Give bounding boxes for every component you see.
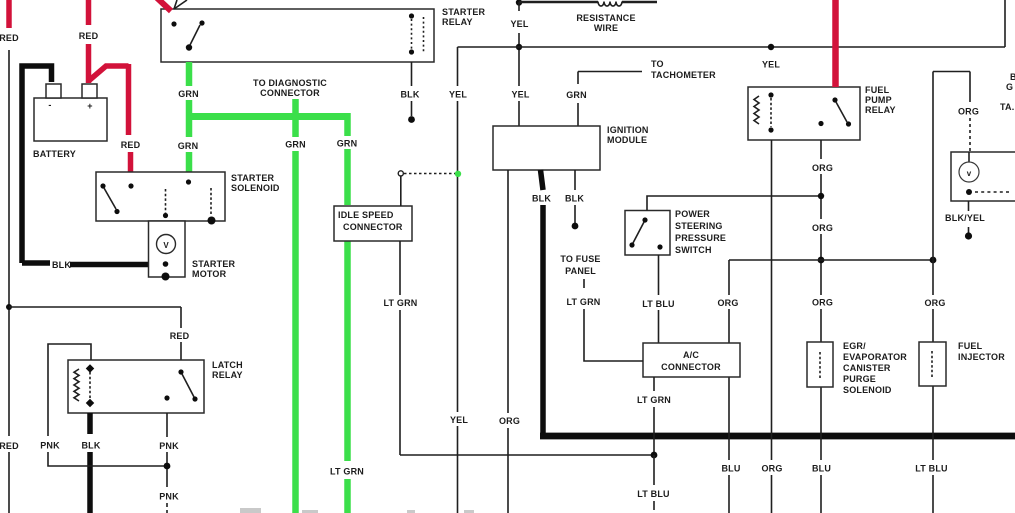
svg-text:BLK: BLK [52,260,71,270]
wire ORG x=933 from bracket to bottom [932,72,934,513]
svg-text:TACHOMETER: TACHOMETER [651,70,716,80]
wire from switch top to ORG junction y=196 [647,196,821,211]
svg-text:LT BLU: LT BLU [915,464,948,474]
svg-text:STARTER: STARTER [442,7,486,17]
svg-text:ORG: ORG [499,416,520,426]
wire far-left RED feed vertical x=9 [6,0,12,513]
svg-text:RED: RED [0,33,19,43]
wire ORG x=729 [728,260,730,513]
wire ORG x=508 from ignition module to bottom [507,170,509,513]
svg-text:SOLENOID: SOLENOID [231,183,280,193]
svg-text:B: B [1010,72,1015,82]
battery B1 [34,84,107,141]
svg-text:ORG: ORG [812,223,833,233]
fuel injector box [919,342,946,386]
wire thin V marks above relay [174,0,187,9]
wire dashed link to YEL line [404,173,455,175]
svg-text:BATTERY: BATTERY [33,149,76,159]
svg-text:RELAY: RELAY [865,105,896,115]
svg-text:POWER: POWER [675,209,710,219]
svg-text:ORG: ORG [812,298,833,308]
svg-text:+: + [87,101,92,111]
node junction (933,260) [930,257,937,264]
svg-text:PRESSURE: PRESSURE [675,233,726,243]
ignition module U1 [493,126,600,170]
svg-text:EGR/: EGR/ [843,341,866,351]
wire ORG distribution y=260 [729,259,933,261]
wire YEL x=457.5 full height [457,47,459,513]
svg-text:CONNECTOR: CONNECTOR [661,362,721,372]
svg-text:BLK: BLK [81,441,100,451]
svg-text:IDLE SPEED: IDLE SPEED [338,210,394,220]
svg-text:GRN: GRN [178,89,199,99]
svg-text:ORG: ORG [924,298,945,308]
wire LT GRN from A/C connector x=654 [653,377,655,452]
svg-text:STEERING: STEERING [675,221,723,231]
svg-text:LT GRN: LT GRN [566,297,600,307]
svg-text:ORG: ORG [761,464,782,474]
starter solenoid contacts [100,179,215,224]
wire BLK thick from ignition module [541,170,544,190]
wire BLK thick horizontal y=436 [540,433,1015,440]
node junction (519,47) [516,44,522,50]
starter relay contacts [171,13,423,54]
svg-text:PNK: PNK [159,492,179,502]
svg-text:RELAY: RELAY [442,17,473,27]
svg-text:INJECTOR: INJECTOR [958,352,1005,362]
EGR solenoid box [807,342,833,387]
svg-text:FUEL: FUEL [958,341,983,351]
svg-text:LT GRN: LT GRN [330,467,364,477]
wire BLK/YEL from sender [968,201,970,233]
wire GRN main bus y=116.5 [186,113,350,120]
svg-text:-: - [48,100,51,110]
terminal end [408,116,415,123]
svg-text:SOLENOID: SOLENOID [843,385,892,395]
svg-text:RESISTANCE: RESISTANCE [576,13,635,23]
A/C connector box [643,343,740,377]
wire battery ground (thick BLK) [22,66,149,265]
starter relay K1 box [161,9,434,62]
faint bottom edge remnants [240,508,474,513]
wire horizontal y=455 to junction [400,454,654,456]
svg-text:LT BLU: LT BLU [637,489,670,499]
svg-text:TO FUSE: TO FUSE [560,254,600,264]
node open circle (401,173.5) [398,171,403,176]
svg-text:G: G [1006,82,1013,92]
svg-text:TO: TO [651,59,664,69]
wire RED battery feed x=88.5 [89,0,131,172]
wire LT GRN from idle speed connector x=400 [399,241,401,455]
svg-text:V: V [163,241,169,250]
svg-text:ORG: ORG [717,298,738,308]
svg-text:v: v [967,169,972,178]
wire BLK thick from latch relay x=90 [87,413,93,513]
svg-text:CANISTER: CANISTER [843,363,891,373]
power steering pressure switch box [625,211,670,256]
svg-text:PUMP: PUMP [865,95,892,105]
wire BLK from relay x=412 [411,62,413,116]
svg-text:RED: RED [79,31,99,41]
wire bracket top y=71.5 [933,72,970,103]
wire LT BLU below junction [653,455,655,510]
wire GRN x=347.5 [344,113,351,513]
svg-text:BLU: BLU [721,464,740,474]
svg-text:GRN: GRN [337,139,358,149]
svg-text:BLK: BLK [532,194,551,204]
node junction (771,47) [768,44,774,50]
svg-text:CONNECTOR: CONNECTOR [260,88,320,98]
svg-text:RED: RED [121,140,141,150]
svg-text:YEL: YEL [450,415,468,425]
wire GRN diagnostic x=295.5 [292,99,299,513]
node junction (654,455) [651,452,658,459]
latch relay internals [74,364,198,407]
node junction (167,466) [164,463,171,470]
wire PNK horizontal y=466 [48,452,167,466]
svg-text:TA.: TA. [1000,102,1014,112]
svg-text:LT GRN: LT GRN [383,298,417,308]
svg-text:WIRE: WIRE [594,23,618,33]
svg-text:RED: RED [170,331,190,341]
wire LT GRN from fuse panel x=584 [584,279,643,361]
svg-text:ORG: ORG [812,163,833,173]
node junction (821,260) [818,257,825,264]
svg-text:BLK: BLK [400,90,419,100]
wire ORG coil return x=771.5 full height [771,140,773,513]
svg-text:SWITCH: SWITCH [675,245,712,255]
svg-text:PANEL: PANEL [565,266,596,276]
svg-text:PURGE: PURGE [843,374,876,384]
svg-text:BLU: BLU [812,464,831,474]
latch relay K3 box [68,360,204,413]
svg-text:BLK/YEL: BLK/YEL [945,213,985,223]
svg-text:YEL: YEL [449,90,467,100]
svg-text:YEL: YEL [510,19,528,29]
svg-text:PNK: PNK [159,441,179,451]
wire ORG switched x=821 [820,140,822,513]
svg-text:GRN: GRN [566,90,587,100]
svg-text:LATCH: LATCH [212,360,243,370]
svg-text:IGNITION: IGNITION [607,125,649,135]
wire from circle into idle speed connector [400,176,402,206]
svg-text:RELAY: RELAY [212,370,243,380]
wire PNK dashed below [166,469,168,513]
wire RED feed to fuel pump relay x=835.5 [832,0,839,87]
svg-text:RED: RED [0,441,19,451]
svg-text:CONNECTOR: CONNECTOR [343,222,403,232]
wire resistance wire top line y=2 [516,0,657,6]
wire PNK from latch relay x=167 [166,413,168,463]
svg-text:MOTOR: MOTOR [192,269,227,279]
wire LT BLU from switch bottom x=658.5 [658,255,660,343]
wire PNK bracket to latch relay [48,344,91,436]
svg-text:PNK: PNK [40,441,60,451]
svg-text:YEL: YEL [511,90,529,100]
starter solenoid box [96,172,225,221]
svg-text:MODULE: MODULE [607,135,647,145]
wire BLK stub x=575 with terminal [574,170,576,223]
svg-text:A/C: A/C [683,350,699,360]
node junction at (9,307) [6,304,12,310]
fuel pump relay internals [754,92,851,132]
starter motor M symbol [157,235,176,281]
node junction (821,196) [818,193,824,199]
fuel pump relay K2 box [748,87,860,140]
wire GRN from starter relay x=189 [186,62,193,173]
node green blob on YEL line [455,171,461,177]
fuel pump sender unit box [951,152,1015,201]
svg-text:YEL: YEL [762,60,780,70]
svg-text:LT BLU: LT BLU [642,299,675,309]
wire branch from node to latch relay [9,307,181,360]
wire GRN tachometer branch [578,72,642,127]
idle speed connector box [334,206,412,241]
svg-text:GRN: GRN [285,140,306,150]
svg-text:STARTER: STARTER [231,173,275,183]
svg-text:LT GRN: LT GRN [637,395,671,405]
svg-text:GRN: GRN [178,141,199,151]
wire YEL x=519 from top to main bus [518,2,520,126]
svg-text:FUEL: FUEL [865,85,890,95]
wire long horizontal bus y=47 [458,0,1006,47]
starter motor box [149,221,186,277]
svg-text:EVAPORATOR: EVAPORATOR [843,352,907,362]
svg-text:STARTER: STARTER [192,259,236,269]
svg-text:BLK: BLK [565,194,584,204]
svg-text:ORG: ORG [958,107,979,117]
svg-text:TO DIAGNOSTIC: TO DIAGNOSTIC [253,78,327,88]
wire red feed into relay corner [156,0,171,11]
wire dashed ORG to sender x=970 [969,118,971,152]
